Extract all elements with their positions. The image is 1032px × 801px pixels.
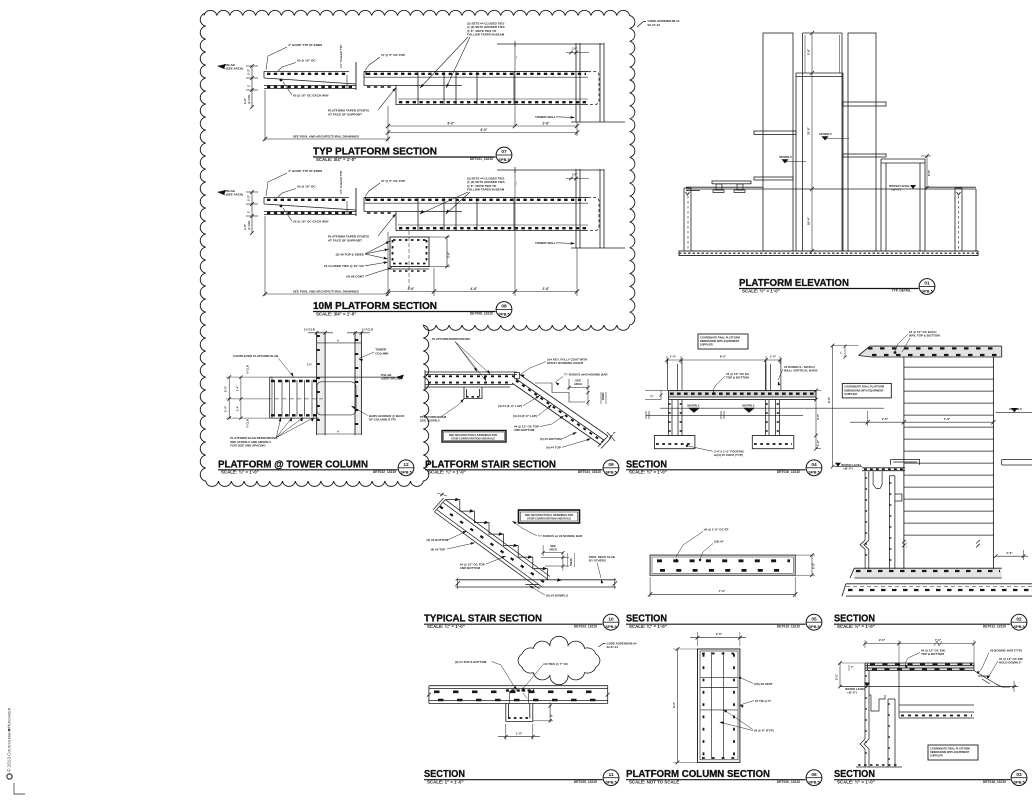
svg-text:(5) #5 BOTTOM: (5) #5 BOTTOM xyxy=(427,538,449,542)
svg-text:2'-6": 2'-6" xyxy=(879,638,886,642)
svg-text:16'-4": 16'-4" xyxy=(807,217,811,225)
TYPICAL STAIR SECTION drawing xyxy=(427,493,618,598)
beam bottom rebar hatch xyxy=(399,101,586,103)
TYP section dimension lines xyxy=(263,90,579,141)
detail bubble 07 xyxy=(496,147,512,163)
PLATFORM ELEVATION drawing xyxy=(679,31,978,256)
detail bubble 11 xyxy=(603,770,619,786)
boxed note: see architectural drawings xyxy=(442,431,506,443)
svg-text:(3) #4 (2'-0" LAP): (3) #4 (2'-0" LAP) xyxy=(513,414,537,418)
svg-text:@ COL: @ COL xyxy=(247,94,251,104)
svg-text:ARCH: ARCH xyxy=(549,548,557,552)
small revision cloud xyxy=(518,636,600,684)
svg-text:6'-0": 6'-0" xyxy=(481,128,488,132)
svg-text:TOWER WALL: TOWER WALL xyxy=(535,115,556,119)
svg-text:FOLLOW TAPER IN BEAM: FOLLOW TAPER IN BEAM xyxy=(467,33,505,37)
svg-text:+(SEE ARCH): +(SEE ARCH) xyxy=(224,193,243,197)
svg-text:02-27-13: 02-27-13 xyxy=(607,645,619,649)
PLATFORM STAIR SECTION drawing xyxy=(420,337,617,450)
svg-text:AT FACE OF SUPPORT: AT FACE OF SUPPORT xyxy=(328,113,362,117)
svg-text:SEE ARCHITECTURAL DRAWINGS FOR: SEE ARCHITECTURAL DRAWINGS FOR xyxy=(449,433,497,437)
tower wall lines xyxy=(575,43,577,122)
svg-text:8'-2": 8'-2" xyxy=(672,701,676,708)
title: PLATFORM STAIR SECTION xyxy=(425,459,603,474)
svg-text:07: 07 xyxy=(501,149,507,155)
svg-text:AT FACE OF SUPPORT: AT FACE OF SUPPORT xyxy=(328,239,362,243)
svg-text:12: 12 xyxy=(403,462,409,468)
detail bubble 12 xyxy=(398,460,414,476)
svg-text:4" HOOK TYP AT ENDS: 4" HOOK TYP AT ENDS xyxy=(288,169,322,173)
svg-text:#5 @ 16" OC: #5 @ 16" OC xyxy=(297,59,316,63)
svg-text:1½": 1½" xyxy=(572,47,578,51)
svg-text:SCALE: 3/4" = 1'-0": SCALE: 3/4" = 1'-0" xyxy=(316,157,356,162)
svg-text:DET022_13210: DET022_13210 xyxy=(373,470,396,474)
svg-text:DET013_13210: DET013_13210 xyxy=(983,624,1006,628)
stair band hatch blobs xyxy=(440,507,545,584)
top slab hatch rows 02 xyxy=(868,347,1000,349)
beam dashed end cap xyxy=(588,71,599,104)
svg-text:HOLD DOWN 2": HOLD DOWN 2" xyxy=(999,661,1022,665)
svg-text:COLUMN: COLUMN xyxy=(375,351,388,355)
svg-text:1'-4": 1'-4" xyxy=(224,405,228,412)
right dim 1'-2 xyxy=(811,555,813,575)
slab band 03 xyxy=(865,663,974,671)
note: (2) #8 top and sides xyxy=(336,241,390,259)
section flag 04/SPB.5 mid xyxy=(819,132,849,141)
svg-text:WAY, TOP & BOTTOM: WAY, TOP & BOTTOM xyxy=(909,334,940,338)
right column below slab xyxy=(766,400,780,436)
note: #3 closed ties xyxy=(324,262,388,269)
column ties xyxy=(701,676,738,678)
svg-text:(3) #4 TOP & BOTTOM: (3) #4 TOP & BOTTOM xyxy=(455,660,487,664)
title: PLATFORM ELEVATION xyxy=(739,278,919,293)
svg-text:DET025_13210: DET025_13210 xyxy=(574,780,597,784)
detail bubble 09 xyxy=(603,460,619,476)
2x4 key xyxy=(515,373,520,379)
slab bottom hatch xyxy=(271,414,317,416)
water level 03 xyxy=(840,686,1018,688)
nosing step profile xyxy=(974,671,1010,688)
svg-text:(5) #5 BOTTOM: (5) #5 BOTTOM xyxy=(540,437,562,441)
svg-text:TOP & BOTTOM: TOP & BOTTOM xyxy=(726,376,749,380)
tower wall top extension line xyxy=(497,169,604,171)
note: #5 each way xyxy=(280,205,283,208)
svg-text:ARCH: ARCH xyxy=(574,382,582,386)
svg-text:1½": 1½" xyxy=(307,363,313,367)
detail bubble 06 xyxy=(806,770,822,786)
beam top chord xyxy=(364,196,588,198)
svg-text:STAIR CONFIGURATION AND RAILS: STAIR CONFIGURATION AND RAILS xyxy=(451,437,495,441)
beam under platform 03 xyxy=(899,663,974,718)
svg-text:DET008_13210: DET008_13210 xyxy=(470,312,493,316)
top dim line 03 xyxy=(865,643,974,645)
tower wall break line xyxy=(571,121,625,123)
detail bubble 04 xyxy=(806,460,822,476)
beam left-bottom hatch xyxy=(367,212,394,214)
platform shelf left lower xyxy=(754,177,793,180)
left tower column xyxy=(763,33,793,251)
gutter inner wall 02 xyxy=(889,476,902,570)
curb block at platform edge xyxy=(891,460,920,465)
svg-text:PLATFORM REINFORCING: PLATFORM REINFORCING xyxy=(432,337,471,341)
svg-text:#5 @ 16" OC EACH WAY: #5 @ 16" OC EACH WAY xyxy=(293,220,330,224)
svg-text:04: 04 xyxy=(811,462,817,468)
column tie blobs xyxy=(317,335,326,337)
right pedestal above slab xyxy=(766,360,781,390)
beam bottom rebar hatch xyxy=(399,227,586,229)
svg-text:#4 TIE @ 6": #4 TIE @ 6" xyxy=(755,699,772,703)
right footing xyxy=(752,436,794,449)
svg-text:2'-6": 2'-6" xyxy=(408,287,415,291)
column tie hatch xyxy=(669,403,683,405)
svg-text:1'-8": 1'-8" xyxy=(807,48,811,55)
svg-text:SPB.5: SPB.5 xyxy=(605,624,617,629)
right flag 01/SPB.5 02 xyxy=(996,411,1032,413)
svg-text:AND BOTTOM: AND BOTTOM xyxy=(460,566,481,570)
svg-text:SPB.5: SPB.5 xyxy=(1013,624,1025,629)
extension line at grid xyxy=(514,170,516,252)
stair stringer lines xyxy=(435,500,551,589)
svg-text:1½"CLR: 1½"CLR xyxy=(304,328,315,332)
left pedestal above slab xyxy=(668,360,682,390)
svg-text:SCALE: NOT TO SCALE: SCALE: NOT TO SCALE xyxy=(629,780,679,785)
left tower column pair xyxy=(317,332,326,435)
left dimension stack xyxy=(251,192,253,233)
beam soffit outline xyxy=(364,71,588,104)
bottom slab band1 02 xyxy=(854,568,1001,578)
middle tower column inner xyxy=(802,33,804,251)
svg-text:1'-4": 1'-4" xyxy=(235,405,239,411)
deck slab lines xyxy=(456,580,616,587)
detail bubble 10 xyxy=(603,614,619,630)
title: SECTION xyxy=(626,459,806,474)
right side dims xyxy=(815,390,817,448)
svg-text:05: 05 xyxy=(811,616,817,622)
SECTION 05 drawing xyxy=(648,528,816,598)
svg-text:SCALE: ¾" = 1'-0": SCALE: ¾" = 1'-0" xyxy=(427,624,465,629)
bottom slab band2 02 xyxy=(842,584,1032,596)
small top-left dims 02 xyxy=(844,346,846,357)
left slab bottom rebar hatch xyxy=(267,86,354,88)
svg-text:1': 1' xyxy=(247,210,251,213)
svg-text:32'-9": 32'-9" xyxy=(807,127,811,135)
right tower column xyxy=(848,33,876,251)
svg-text:01: 01 xyxy=(924,281,930,287)
note: (4) #8 cont xyxy=(346,268,392,279)
svg-text:6'-6": 6'-6" xyxy=(827,396,831,403)
right tower column pair xyxy=(355,332,361,435)
svg-text:SCALE: ¾" = 1'-0": SCALE: ¾" = 1'-0" xyxy=(221,470,259,475)
copyright text xyxy=(6,707,13,779)
dim 7'-6 xyxy=(650,593,795,595)
svg-text:1'-4": 1'-4" xyxy=(235,385,239,391)
svg-text:SPB.5: SPB.5 xyxy=(605,470,617,475)
gutter hatch 03 xyxy=(865,675,869,677)
wall verticals 02 xyxy=(903,357,905,569)
beam top rebar hatch xyxy=(367,73,586,75)
beam soffit outline xyxy=(364,197,588,230)
slab hatch rows xyxy=(428,375,515,377)
left vertical dim 6'-6 02 xyxy=(832,346,834,467)
svg-text:6'-0": 6'-0" xyxy=(448,122,455,126)
svg-text:(26) #8 VERT: (26) #8 VERT xyxy=(754,682,773,686)
beam top rebar hatch xyxy=(367,199,586,201)
left slab bottom rebar hatch xyxy=(267,212,354,214)
beam bottom inner chord xyxy=(398,98,588,100)
slab top hatch xyxy=(271,380,317,382)
svg-text:(4) #4 TOP: (4) #4 TOP xyxy=(546,446,561,450)
section flag 05/SPB.5 left xyxy=(779,155,806,164)
beam stub xyxy=(506,704,533,722)
gutter trough 02 xyxy=(873,471,882,488)
slab left end xyxy=(269,377,271,418)
slab band 11 xyxy=(429,686,608,704)
gutter tie hatch 02 xyxy=(865,477,869,479)
top dimension line xyxy=(667,359,780,361)
deck end ticks xyxy=(456,581,460,585)
svg-text:+(SEE ARCH): +(SEE ARCH) xyxy=(224,67,243,71)
svg-text:3'-3": 3'-3" xyxy=(816,413,820,420)
svg-text:(4) #4 (2'-0" LAP): (4) #4 (2'-0" LAP) xyxy=(498,404,522,408)
slab hatch 11 bottom xyxy=(438,699,605,702)
left dim 8'-2 xyxy=(677,649,679,762)
svg-text:7'-6": 7'-6" xyxy=(944,417,951,421)
svg-text:SCALE: ½" = 1'-0": SCALE: ½" = 1'-0" xyxy=(837,780,875,785)
svg-text:2'-2": 2'-2" xyxy=(835,673,839,680)
svg-text:10: 10 xyxy=(608,616,614,622)
svg-text:02: 02 xyxy=(1016,616,1022,622)
svg-text:SCALE: ¾" = 1'-0": SCALE: ¾" = 1'-0" xyxy=(629,624,667,629)
svg-text:11: 11 xyxy=(608,772,613,778)
svg-text:DIMENSIONS WITH EQUIPMENT: DIMENSIONS WITH EQUIPMENT xyxy=(700,339,740,343)
left slab outline xyxy=(264,197,356,214)
dowel dash under deck xyxy=(525,584,539,586)
wall ladder lines 02 xyxy=(904,366,994,368)
beam mid soffit line xyxy=(396,210,462,212)
top connector line xyxy=(317,342,362,344)
svg-text:COORDINATE FINAL PLATFORM: COORDINATE FINAL PLATFORM xyxy=(700,335,740,339)
svg-text:06: 06 xyxy=(811,772,817,778)
svg-text:+(0'-0"): +(0'-0") xyxy=(891,188,901,192)
svg-text:SUPPLIER: SUPPLIER xyxy=(700,343,713,347)
10M column below beam xyxy=(390,231,429,291)
slab hatch bottom row xyxy=(660,569,790,572)
svg-text:#3 CLOSED TIES @ 16" OC: #3 CLOSED TIES @ 16" OC xyxy=(324,264,365,268)
title: 10M PLATFORM SECTION xyxy=(313,301,496,316)
svg-text:4" HOOK TYP AT ENDS: 4" HOOK TYP AT ENDS xyxy=(288,43,322,47)
svg-text:TREAD: TREAD xyxy=(570,558,573,566)
TYP PLATFORM SECTION drawing xyxy=(217,22,625,127)
svg-text:DET023_13210: DET023_13210 xyxy=(574,624,597,628)
svg-text:SEE POOL AND ARCHITECTURAL DRA: SEE POOL AND ARCHITECTURAL DRAWINGS xyxy=(293,135,359,139)
stair nosing step outline xyxy=(535,383,585,402)
svg-text:BY OTHERS: BY OTHERS xyxy=(589,559,606,563)
svg-text:(5) #4 DOWELS: (5) #4 DOWELS xyxy=(546,594,568,598)
column top clear dims xyxy=(308,332,333,334)
beam dashed end cap xyxy=(588,197,599,230)
hooked bars between columns xyxy=(317,382,356,415)
slab hatch top row xyxy=(657,559,790,562)
PLATFORM AT TOWER COLUMN drawing xyxy=(224,328,406,448)
svg-text:05/SPB.5: 05/SPB.5 xyxy=(687,403,700,407)
left dimension stack col detail xyxy=(228,377,230,418)
right side dim 9'-6 xyxy=(926,156,928,188)
column vertical bars hatch left xyxy=(703,654,705,758)
svg-text:SCALE: ½" = 1'-0": SCALE: ½" = 1'-0" xyxy=(742,288,780,293)
title: PLATFORM @ TOWER COLUMN xyxy=(218,459,398,474)
SECTION 02 drawing xyxy=(827,330,1032,596)
code addendum note xyxy=(637,19,680,27)
column outer rect xyxy=(698,649,740,762)
left dim 03 xyxy=(839,663,841,687)
slab top-of-slab marker arrow xyxy=(217,190,226,195)
svg-text:COORDINATE FINAL PLATFORM: COORDINATE FINAL PLATFORM xyxy=(930,746,970,750)
detail bubble 05 xyxy=(806,614,822,630)
svg-text:1½" CLEAR TYP: 1½" CLEAR TYP xyxy=(339,171,343,194)
svg-text:2'-6": 2'-6" xyxy=(543,122,550,126)
platform slab band xyxy=(669,390,817,397)
svg-text:STAIR CONFIGURATION AND RAILS: STAIR CONFIGURATION AND RAILS xyxy=(527,517,571,521)
beam left-bottom hatch xyxy=(367,86,394,88)
svg-text:(2) #8 TOP & SIDES: (2) #8 TOP & SIDES xyxy=(336,253,364,257)
SECTION 11 drawing xyxy=(427,636,637,740)
svg-text:#7 @ 6" OC TOP: #7 @ 6" OC TOP xyxy=(381,179,405,183)
svg-text:05/SPB.5: 05/SPB.5 xyxy=(779,155,792,159)
center dimension line xyxy=(811,33,813,251)
svg-text:SEE ARCHITECTURAL DRAWINGS FOR: SEE ARCHITECTURAL DRAWINGS FOR xyxy=(525,513,573,517)
gutter wall 03 xyxy=(860,671,869,768)
svg-text:COORDINATE FINAL PLATFORM: COORDINATE FINAL PLATFORM xyxy=(844,385,884,389)
title: SECTION xyxy=(834,769,1011,784)
svg-text:1'-3": 1'-3" xyxy=(247,194,251,201)
svg-text:SPB.5: SPB.5 xyxy=(400,470,412,475)
pool wall left xyxy=(684,188,691,251)
svg-text:2'-6": 2'-6" xyxy=(447,251,451,258)
revision cloud border xyxy=(200,10,635,486)
svg-text:TYP. DETAIL: TYP. DETAIL xyxy=(892,289,911,293)
column inner verticals xyxy=(711,652,713,759)
tower wall top extension line xyxy=(497,43,604,45)
svg-text:2'-6": 2'-6" xyxy=(543,287,550,291)
stair platform slab xyxy=(425,370,517,389)
svg-text:02-27-13: 02-27-13 xyxy=(648,23,661,27)
svg-text:#5 @ 16" OC EACH WAY: #5 @ 16" OC EACH WAY xyxy=(293,94,330,98)
svg-text:(4) #4 TOP: (4) #4 TOP xyxy=(431,547,446,551)
slab hatch 03 xyxy=(870,663,972,665)
svg-text:(16) #7: (16) #7 xyxy=(714,540,724,544)
column 2'-6 dim xyxy=(429,235,451,268)
svg-text:½"CLR: ½"CLR xyxy=(245,365,249,374)
svg-text:w/(4) #5 CONT (TYP): w/(4) #5 CONT (TYP) xyxy=(713,453,743,457)
svg-text:7'-6": 7'-6" xyxy=(935,638,942,642)
5m deck lines 02 xyxy=(862,467,905,469)
stair step zigzag xyxy=(445,500,547,580)
stair nosing arrow marks xyxy=(455,498,460,501)
svg-text:1'-0": 1'-0" xyxy=(770,355,777,359)
stair band hatch xyxy=(516,381,603,443)
slab bottom line xyxy=(270,417,319,419)
left slab top rebar hatch xyxy=(267,73,348,75)
5m platform box xyxy=(881,159,925,251)
gutter inner wall 03 xyxy=(888,699,895,767)
base marks 03 xyxy=(858,764,900,766)
title: TYP PLATFORM SECTION xyxy=(313,147,496,162)
svg-text:8'-2": 8'-2" xyxy=(720,355,727,359)
diving board xyxy=(712,181,751,184)
svg-text:4'-6": 4'-6" xyxy=(471,287,478,291)
svg-text:SPB.5: SPB.5 xyxy=(498,311,510,316)
svg-text:2'-0": 2'-0" xyxy=(224,385,228,392)
slab outline double xyxy=(650,555,795,575)
extension line at grid xyxy=(514,44,516,126)
title: PLATFORM COLUMN SECTION xyxy=(626,769,806,784)
detail bubble 01 xyxy=(919,279,935,295)
svg-text:SCALE: 1" = 1'-0": SCALE: 1" = 1'-0" xyxy=(427,780,464,785)
svg-text:¾" RADIUS w/#3 NOSING BAR: ¾" RADIUS w/#3 NOSING BAR xyxy=(564,373,608,377)
title: SECTION xyxy=(626,614,806,629)
section cut line upper xyxy=(660,407,884,409)
beam mid soffit line xyxy=(396,84,462,86)
svg-text:DIMENSIONS WITH EQUIPMENT: DIMENSIONS WITH EQUIPMENT xyxy=(844,388,884,392)
stub top tie hatch xyxy=(506,689,534,691)
svg-text:SPB.5: SPB.5 xyxy=(605,780,617,785)
coordinate note box xyxy=(698,334,748,349)
slab joint line xyxy=(355,62,357,90)
svg-text:#5 @ 16" OC: #5 @ 16" OC xyxy=(297,185,316,189)
slab center dashed line xyxy=(267,398,324,400)
svg-text:SCALE: ¾" = 1'-0": SCALE: ¾" = 1'-0" xyxy=(629,470,667,475)
svg-text:#3 NOSING BAR (TYP): #3 NOSING BAR (TYP) xyxy=(990,649,1022,653)
svg-text:SPB.5: SPB.5 xyxy=(921,288,933,293)
t/slab top line xyxy=(270,376,396,378)
svg-text:1'-3": 1'-3" xyxy=(247,68,251,75)
pool wall right xyxy=(955,188,962,251)
left footing xyxy=(654,436,695,449)
svg-text:¾" RADIUS w/ #3 NOSING BAR: ¾" RADIUS w/ #3 NOSING BAR xyxy=(538,534,583,538)
svg-text:#5 @ 1'-0" OC EF: #5 @ 1'-0" OC EF xyxy=(704,528,729,532)
svg-text:DIMENSIONS WITH EQUIPMENT: DIMENSIONS WITH EQUIPMENT xyxy=(930,750,970,754)
top hatch and bottom hatch xyxy=(702,653,736,655)
beam top chord xyxy=(364,70,588,72)
slab hatch 11 top xyxy=(434,690,605,693)
PLATFORM COLUMN SECTION drawing xyxy=(672,632,774,764)
right deck line xyxy=(925,186,976,188)
svg-text:1'-6": 1'-6" xyxy=(816,439,820,446)
beam top inner chord xyxy=(364,202,588,204)
svg-text:SCALE: ¾" = 1'-0": SCALE: ¾" = 1'-0" xyxy=(428,470,466,475)
title: SECTION xyxy=(424,769,603,784)
svg-text:SPB.5: SPB.5 xyxy=(808,470,820,475)
svg-text:DET019_13210: DET019_13210 xyxy=(777,624,800,628)
svg-text:SCALE: ½" = 1'-0": SCALE: ½" = 1'-0" xyxy=(837,624,875,629)
svg-text:OF COLUMN (TYP): OF COLUMN (TYP) xyxy=(369,418,396,422)
beam bottom inner chord xyxy=(398,224,588,226)
svg-text:SUPPLIER: SUPPLIER xyxy=(844,392,857,396)
svg-text:DET024_13210: DET024_13210 xyxy=(578,470,601,474)
gutter trough 03 xyxy=(869,695,885,711)
detail bubble 02 xyxy=(1011,614,1027,630)
platform shelf right lower xyxy=(843,154,886,157)
stair stringer band xyxy=(512,374,608,445)
left dimension stack xyxy=(251,66,253,107)
svg-text:09: 09 xyxy=(608,462,614,468)
svg-text:1½"CLR: 1½"CLR xyxy=(362,328,373,332)
svg-text:DET018_13210: DET018_13210 xyxy=(983,780,1006,784)
svg-text:TOWER WALL: TOWER WALL xyxy=(535,241,556,245)
slab joint line xyxy=(355,188,357,216)
svg-text:08: 08 xyxy=(501,304,507,310)
10M PLATFORM SECTION drawing xyxy=(217,167,625,252)
